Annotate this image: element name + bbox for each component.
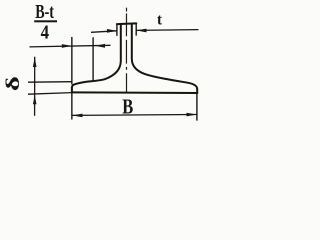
dimension t: extension lines hanging from cap ends: [117, 23, 136, 35]
delta bottom arrow (points up at bottom ext line): [33, 95, 37, 104]
dimension B: left extension line (continues flange left edge down): [71, 92, 73, 119]
svg-text:δ: δ: [3, 76, 24, 91]
dimension (B-t)/4: dimension line: [30, 45, 111, 47]
centerline (dash-dot) of web: [125, 8, 127, 93]
(B-t)/4 arrow at measuring point (points left): [95, 44, 105, 48]
dimension B: right extension line: [196, 93, 198, 121]
delta top extension line (flange top at measuring point): [28, 81, 73, 84]
(B-t)/4 extension line at flange edge: [71, 37, 73, 85]
dimension B: dimension line (gap under label): [72, 114, 197, 117]
fraction bar: [34, 20, 57, 22]
(B-t)/4 extension line at delta measuring point: [92, 37, 94, 80]
flange bottom: [72, 91, 197, 94]
web left edge + left fillet + flange top left + flange left edge: [72, 24, 121, 92]
svg-text:B: B: [122, 95, 133, 119]
tee-profile cross-section engineering drawing: [0, 0, 209, 125]
web top cap: [117, 22, 136, 25]
B arrow left (points left at left ext): [72, 114, 83, 118]
delta label (rotated): [3, 76, 24, 91]
svg-text:4: 4: [41, 22, 49, 44]
t arrow left (points right at left ext line): [107, 29, 117, 33]
t arrow right (points left at right ext line): [136, 29, 146, 33]
profile outline: tee section: [72, 23, 197, 93]
web right edge + right fillet + flange top right + flange right edge: [132, 24, 197, 93]
delta bottom extension line (flange bottom carried left): [28, 93, 72, 95]
delta dimension: vertical dimension line: [34, 57, 36, 116]
delta top arrow (points up, at top end of line): [33, 57, 37, 67]
svg-text:t: t: [157, 12, 163, 29]
dimension t: dimension line (left and right segments): [91, 30, 199, 33]
B arrow right (points right at right ext): [187, 113, 197, 117]
svg-text:B-t: B-t: [35, 1, 54, 23]
(B-t)/4 arrow at flange edge (points right): [62, 44, 72, 48]
